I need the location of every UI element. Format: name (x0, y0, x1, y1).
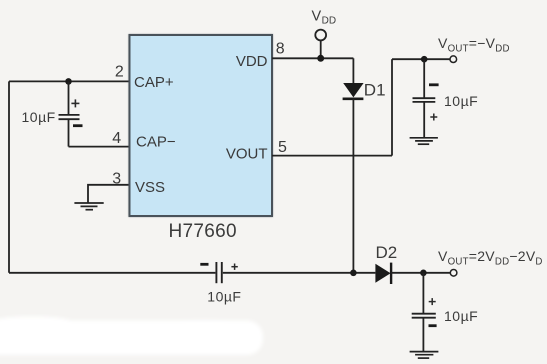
node junction positive output (420, 270, 427, 277)
VDD supply terminal (315, 30, 326, 59)
node junction VDD (317, 55, 324, 62)
svg-text:3: 3 (112, 171, 121, 188)
capacitor C1 10uF (59, 81, 83, 146)
svg-text:10µF: 10µF (207, 288, 241, 304)
output terminal 2VDD-2VD (450, 270, 457, 277)
wire CAP+ pin 2 horizontal (9, 80, 130, 82)
svg-text:VOUT: VOUT (226, 146, 268, 163)
svg-text:CAP+: CAP+ (134, 74, 174, 91)
wire D1 cathode down to bottom rail (352, 99, 354, 273)
svg-text:5: 5 (278, 139, 287, 156)
svg-text:2: 2 (115, 64, 124, 81)
svg-text:10µF: 10µF (22, 109, 56, 125)
wire to negative output terminal (392, 58, 450, 60)
node junction bottom rail D1 (350, 270, 357, 277)
svg-text:10µF: 10µF (444, 308, 478, 324)
svg-text:10µF: 10µF (444, 93, 478, 109)
ground for C4 (410, 352, 439, 359)
node junction negative output (421, 56, 428, 63)
wire VOUT vertical up (391, 59, 393, 155)
ground for VSS (74, 203, 103, 210)
wire VSS pin 3 (88, 185, 130, 203)
svg-text:D2: D2 (376, 243, 398, 262)
svg-text:H77660: H77660 (169, 221, 237, 242)
diode D2 (375, 263, 391, 284)
svg-text:4: 4 (112, 130, 121, 147)
ground for C3 (410, 138, 438, 144)
wire bottom rail right (223, 272, 376, 274)
capacitor C2 10uF pump (200, 262, 238, 283)
diode D1 (343, 83, 364, 99)
wire VOUT pin 5 horizontal (272, 155, 392, 157)
wire VDD node to D1 (352, 58, 354, 83)
IC U1 H77660 body (130, 35, 273, 216)
node junction at C1 top (65, 78, 72, 85)
svg-text:VSS: VSS (135, 179, 165, 196)
wire bottom rail left (9, 272, 215, 274)
capacitor C3 10uF (413, 59, 439, 138)
wire D2 to positive output terminal (391, 272, 450, 274)
svg-text:D1: D1 (364, 80, 386, 99)
wire VDD pin 8 horizontal (272, 57, 353, 59)
capacitor C4 10uF (412, 273, 437, 352)
svg-text:8: 8 (276, 41, 285, 58)
svg-text:CAP−: CAP− (136, 134, 176, 151)
wire CAP- pin 4 horizontal (69, 146, 131, 148)
wire left vertical bus (8, 81, 10, 272)
output terminal -VDD (450, 56, 457, 63)
svg-text:VDD: VDD (236, 53, 268, 70)
